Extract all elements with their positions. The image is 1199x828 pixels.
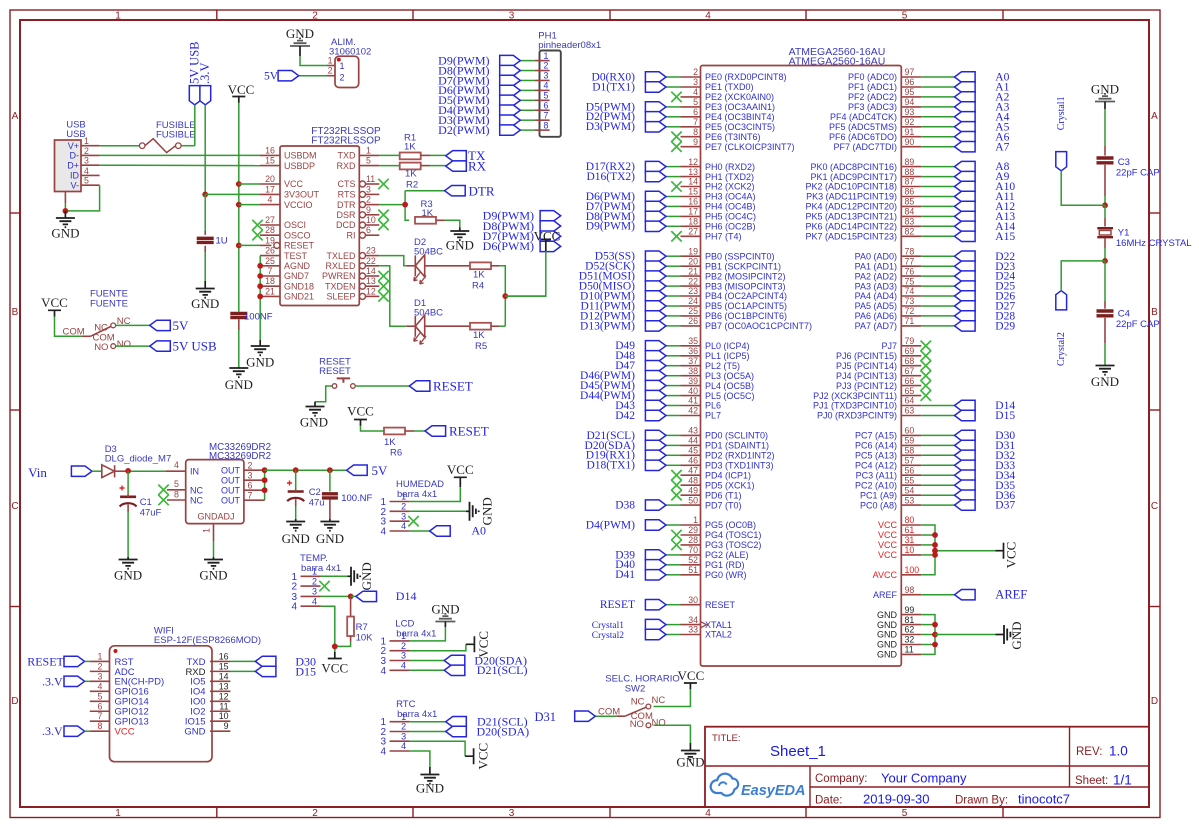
svg-text:2: 2 — [84, 146, 89, 156]
port D35 wire+flag — [921, 480, 1015, 492]
svg-text:31: 31 — [905, 535, 915, 545]
capacitor C3 22pF — [1097, 157, 1160, 179]
ground GND (RTC) — [416, 767, 444, 796]
port Vin flag — [28, 465, 92, 480]
svg-text:AREF: AREF — [873, 590, 898, 600]
port D21(SCL) flag (LCD) — [444, 663, 527, 677]
wire R2 to RX flag — [421, 165, 446, 167]
U1 pin 22 PB3 (MISOPCINT3) — [681, 276, 786, 291]
svg-text:49: 49 — [688, 485, 698, 495]
svg-text:7: 7 — [268, 266, 273, 276]
U1 pin 15 PH3 (OC4A) — [681, 187, 756, 202]
wire node to C4 — [1104, 261, 1106, 309]
svg-text:30: 30 — [688, 595, 698, 605]
resistor R3 — [415, 199, 436, 224]
svg-text:13: 13 — [366, 276, 376, 286]
resistor R7 10K — [347, 617, 373, 644]
svg-text:PD7 (T0): PD7 (T0) — [705, 500, 742, 510]
svg-text:DSR: DSR — [336, 210, 356, 220]
svg-text:23: 23 — [366, 246, 376, 256]
svg-text:GND: GND — [877, 610, 898, 620]
port 5V flag (FUENTE) — [150, 318, 189, 333]
wire LCD pin4 to D21 — [410, 669, 445, 671]
no-connect U2 CTS — [378, 179, 388, 189]
svg-text:V-: V- — [70, 180, 79, 190]
svg-text:4: 4 — [401, 521, 406, 531]
wire LCD pin2 to VCC — [410, 644, 466, 650]
svg-text:1: 1 — [544, 51, 549, 61]
ground GND (U3) — [199, 557, 227, 583]
svg-text:PD0 (SCLINT0): PD0 (SCLINT0) — [705, 431, 768, 441]
ground GND (FT232) — [246, 340, 274, 370]
svg-text:1: 1 — [693, 515, 698, 525]
svg-text:NO: NO — [630, 719, 644, 730]
svg-text:VCC: VCC — [678, 668, 705, 683]
wire RTC pin1 to D21 — [410, 721, 446, 723]
switch SW1 FUENTE — [63, 316, 132, 353]
svg-text:AVCC: AVCC — [873, 570, 898, 580]
PH1 pin 1 — [535, 51, 550, 61]
U1 pin 76 PA2 (AD2) — [855, 266, 922, 281]
port DTR flag — [445, 184, 495, 199]
U1 pin 46 PD3 (TXD1INT3) — [681, 456, 774, 471]
svg-text:1: 1 — [401, 712, 406, 722]
wire 5V USB flag drop — [194, 105, 196, 146]
wire RXLED to D1 — [379, 266, 415, 326]
VCC flag (LED pullup) — [534, 229, 561, 252]
port A10 wire+flag — [921, 181, 1015, 193]
ground GND (100.NF) — [316, 519, 344, 546]
USB pin 5 V- — [70, 176, 99, 191]
U1 pin 72 PA6 (AD6) — [855, 306, 922, 321]
svg-text:8: 8 — [174, 490, 179, 500]
svg-text:ID: ID — [70, 171, 80, 181]
svg-text:NO: NO — [117, 339, 131, 350]
svg-text:1: 1 — [328, 56, 333, 66]
svg-text:R7: R7 — [356, 622, 368, 633]
U2 pin 18 GND18 — [260, 276, 314, 291]
svg-text:NO: NO — [94, 342, 108, 353]
no-connect pin 66 — [921, 380, 931, 390]
svg-text:19: 19 — [265, 235, 275, 245]
wire VCC to COM — [55, 316, 82, 336]
svg-text:22pF CAP: 22pF CAP — [1116, 319, 1160, 330]
port D37 wire+flag — [921, 500, 1015, 512]
svg-text:VCC: VCC — [321, 661, 348, 676]
port D48 wire+flag — [615, 350, 680, 362]
IC U3 MC33269DR2 body — [186, 460, 244, 524]
svg-text:5: 5 — [366, 156, 371, 166]
svg-text:PH6 (OC2B): PH6 (OC2B) — [705, 222, 756, 232]
svg-text:PF3 (ADC3): PF3 (ADC3) — [848, 102, 897, 112]
U1 pin 62 GND — [877, 625, 921, 640]
wire RTC pin2 to D20 — [410, 731, 446, 733]
U1 pin 65 PJ2 (XCK3PCINT11) — [813, 386, 921, 401]
port D50(MISO) wire+flag — [579, 281, 681, 293]
wire 3V3OUT to .3V rail — [205, 193, 260, 195]
switch FUENTE labels — [90, 289, 128, 310]
svg-text:4: 4 — [268, 195, 273, 205]
no-connect U2 left — [252, 230, 262, 240]
svg-text:PH1 (TXD2): PH1 (TXD2) — [705, 172, 754, 182]
svg-text:PG0 (WR): PG0 (WR) — [705, 570, 747, 580]
port D42 wire+flag — [615, 410, 680, 422]
connector ALIM 31060102 body — [335, 56, 359, 87]
svg-text:47: 47 — [688, 465, 698, 475]
svg-text:R4: R4 — [472, 281, 484, 292]
U1 pin 24 PB5 (OC1APCINT5) — [681, 296, 788, 311]
svg-text:4: 4 — [312, 596, 317, 606]
wire LCD pin3 to D20 — [410, 660, 445, 662]
ground GND (LCD mound) — [431, 602, 459, 628]
svg-text:USBDP: USBDP — [284, 161, 315, 171]
svg-text:D6(PWM): D6(PWM) — [483, 239, 534, 253]
U3 pin 1 GNDADJ — [197, 512, 234, 542]
svg-text:PG2 (ALE): PG2 (ALE) — [705, 550, 749, 560]
svg-text:6: 6 — [248, 480, 253, 490]
U1 pin 26 PB7 (OC0AOC1CPCINT7) — [681, 316, 813, 331]
svg-text:PL0 (ICP4): PL0 (ICP4) — [705, 341, 750, 351]
capacitor C4 22pF — [1097, 309, 1160, 331]
U2 pin 10 DCD — [336, 215, 379, 230]
svg-text:51: 51 — [688, 565, 698, 575]
port A14 wire+flag — [921, 221, 1015, 233]
U4 pin 4 GPIO16 — [90, 681, 149, 697]
svg-text:D1(TX1): D1(TX1) — [592, 81, 635, 93]
svg-text:PL5 (OC5C): PL5 (OC5C) — [705, 391, 755, 401]
svg-text:1/1: 1/1 — [1113, 773, 1132, 788]
port D31 wire+flag — [921, 440, 1015, 452]
port D11(PWM) wire+flag — [580, 300, 680, 312]
U1 pin 94 PF3 (ADC3) — [848, 97, 921, 112]
svg-text:D-: D- — [70, 151, 80, 161]
svg-text:PC5 (A13): PC5 (A13) — [855, 451, 897, 461]
PH1 pin 4 — [535, 81, 550, 91]
svg-text:PL4 (OC5B): PL4 (OC5B) — [705, 381, 754, 391]
U2 pin 1 TXD — [338, 145, 380, 160]
wire GND rail (pins 99/81/62/32/11) — [921, 615, 995, 655]
LED D2 — [414, 237, 443, 284]
svg-text:35: 35 — [688, 336, 698, 346]
svg-text:15: 15 — [265, 156, 275, 166]
svg-text:75: 75 — [905, 276, 915, 286]
wire TEMP pin1 to GND — [321, 575, 348, 577]
svg-text:D14: D14 — [396, 589, 417, 603]
port D10(PWM) wire+flag — [580, 290, 680, 302]
svg-text:PC1 (A9): PC1 (A9) — [860, 490, 897, 500]
U1 pin 51 PG0 (WR) — [681, 565, 747, 580]
svg-text:99: 99 — [905, 605, 915, 615]
svg-text:PF2 (ADC2): PF2 (ADC2) — [848, 92, 897, 102]
U4 pin 9 GND — [184, 721, 230, 737]
svg-text:PB1 (SCKPCINT1): PB1 (SCKPCINT1) — [705, 261, 781, 271]
wire HUMEDAD pin1 to VCC — [410, 487, 461, 502]
wire USBDP (USB D+) — [100, 164, 260, 166]
U1 pin 7 PE5 (OC3CINT5) — [681, 117, 776, 132]
svg-text:FUENTE: FUENTE — [90, 299, 128, 310]
svg-text:4: 4 — [693, 87, 698, 97]
no-connect pin 27 — [671, 231, 681, 241]
svg-text:27: 27 — [265, 215, 275, 225]
U1 pin 71 PA7 (AD7) — [855, 316, 922, 331]
port D7(PWM) wire+flag — [586, 201, 681, 213]
wire RXD to D15 flag — [230, 670, 255, 672]
port A4 wire+flag — [921, 111, 1009, 123]
svg-text:98: 98 — [905, 585, 915, 595]
svg-text:87: 87 — [905, 177, 915, 187]
svg-text:PH2 (XCK2): PH2 (XCK2) — [705, 182, 755, 192]
wire TEMP pin4 to VCC — [321, 606, 338, 652]
svg-text:62: 62 — [905, 625, 915, 635]
port RESET flag (ESP) — [27, 654, 90, 668]
title block grid — [705, 727, 1149, 807]
U2 pin 20 VCC — [260, 174, 304, 189]
svg-text:92: 92 — [905, 117, 915, 127]
U3 pin 4 IN — [165, 460, 199, 477]
svg-text:SW2: SW2 — [625, 684, 646, 695]
svg-text:RI: RI — [347, 230, 356, 240]
svg-text:4: 4 — [380, 666, 386, 677]
U1 pin 18 PH6 (OC2B) — [681, 217, 756, 232]
U1 pin 80 VCC — [878, 515, 921, 530]
U2 pin 23 TXLED — [326, 246, 379, 261]
svg-text:PF5 (ADC5TMS): PF5 (ADC5TMS) — [829, 122, 897, 132]
svg-text:SLEEP: SLEEP — [326, 292, 355, 302]
svg-text:1: 1 — [98, 651, 103, 661]
svg-text:26: 26 — [265, 246, 275, 256]
svg-text:14: 14 — [219, 671, 229, 681]
port Crystal2 flag — [1056, 291, 1067, 366]
port D12(PWM) wire+flag — [580, 310, 680, 322]
port A6 wire+flag — [921, 131, 1009, 143]
svg-text:VCC: VCC — [534, 229, 561, 244]
svg-text:PD5 (XCK1): PD5 (XCK1) — [705, 480, 755, 490]
svg-text:3: 3 — [401, 651, 406, 661]
svg-text:43: 43 — [688, 426, 698, 436]
port A9 wire+flag — [921, 171, 1009, 183]
wire USBDM (USB D-) — [100, 154, 260, 156]
port 5V USB flag (FUENTE) — [150, 339, 217, 354]
svg-text:GND: GND — [1009, 621, 1024, 649]
svg-text:12: 12 — [366, 286, 376, 296]
svg-text:5V USB: 5V USB — [173, 339, 218, 354]
svg-text:74: 74 — [905, 286, 915, 296]
svg-text:GND: GND — [416, 781, 444, 796]
svg-text:3: 3 — [248, 470, 253, 480]
svg-text:D20(SDA): D20(SDA) — [477, 724, 530, 738]
no-connect pin 9 — [671, 142, 681, 152]
svg-text:GND: GND — [246, 355, 274, 370]
U1 pin 82 PK7 (ADC15PCINT23) — [805, 227, 921, 242]
svg-text:25: 25 — [265, 256, 275, 266]
svg-text:17: 17 — [688, 207, 698, 217]
port A2 wire+flag — [921, 92, 1009, 104]
PH1 pin 8 — [535, 120, 550, 130]
svg-text:GND: GND — [877, 640, 898, 650]
svg-text:Your Company: Your Company — [881, 771, 967, 786]
U1 pin 21 PB2 (MOSIPCINT2) — [681, 266, 786, 281]
wire R7 to VCC node — [335, 636, 351, 646]
svg-text:OUT: OUT — [221, 486, 241, 496]
port D24 wire+flag — [921, 271, 1015, 283]
svg-text:PE0 (RXD0PCINT8): PE0 (RXD0PCINT8) — [705, 72, 787, 82]
svg-text:4: 4 — [705, 808, 711, 819]
wire VCC rail (pins 80/61/31/10/AVCC) — [921, 525, 995, 575]
svg-text:1K: 1K — [422, 208, 434, 219]
wire VCC rail down — [236, 103, 260, 312]
USB pin 1 V+ — [68, 136, 100, 151]
svg-text:100NF: 100NF — [244, 312, 273, 323]
svg-text:7: 7 — [248, 490, 253, 500]
svg-text:60: 60 — [905, 426, 915, 436]
svg-text:66: 66 — [905, 376, 915, 386]
svg-text:5: 5 — [84, 176, 89, 186]
svg-text:D: D — [11, 696, 18, 707]
wire HUMEDAD pin2 to GND — [410, 510, 466, 512]
svg-text:D4(PWM): D4(PWM) — [586, 519, 635, 531]
USB pin 4 ID — [70, 166, 100, 181]
svg-text:GND: GND — [114, 568, 142, 583]
svg-text:TXLED: TXLED — [326, 251, 356, 261]
wire D3 to IN — [115, 468, 166, 474]
svg-text:OSCO: OSCO — [284, 230, 311, 240]
svg-text:12: 12 — [688, 157, 698, 167]
port D21(SCL) flag (RTC) — [446, 715, 528, 729]
svg-text:PJ2 (XCK3PCINT11): PJ2 (XCK3PCINT11) — [813, 391, 897, 401]
svg-text:42: 42 — [688, 406, 698, 416]
svg-text:PC4 (A12): PC4 (A12) — [855, 461, 897, 471]
svg-text:PJ4 (PCINT13): PJ4 (PCINT13) — [836, 371, 897, 381]
svg-text:AREF: AREF — [995, 588, 1027, 602]
svg-text:GND: GND — [1091, 374, 1119, 389]
U2 pin 19 RESET — [260, 235, 315, 250]
wire D1 to R5 — [425, 325, 470, 327]
svg-text:D+: D+ — [67, 160, 79, 170]
svg-text:RESET: RESET — [600, 599, 635, 611]
svg-text:1K: 1K — [404, 142, 416, 153]
svg-text:4: 4 — [291, 602, 297, 613]
svg-text:A: A — [12, 111, 19, 122]
U4 pin 1 RST — [90, 651, 134, 667]
svg-text:GND: GND — [446, 238, 474, 253]
svg-text:56: 56 — [905, 465, 915, 475]
svg-text:TXDEN: TXDEN — [325, 281, 356, 291]
U1 pin 70 PG2 (ALE) — [681, 545, 749, 560]
svg-text:10: 10 — [366, 215, 376, 225]
svg-text:4: 4 — [381, 747, 387, 758]
resistor R2 — [400, 163, 421, 191]
svg-text:PE1 (TXD0): PE1 (TXD0) — [705, 82, 754, 92]
svg-text:10K: 10K — [356, 633, 374, 644]
ground GND (ALIM) — [286, 26, 314, 56]
ground GND (USB) — [51, 211, 79, 241]
svg-text:13: 13 — [688, 167, 698, 177]
svg-text:5V: 5V — [264, 71, 279, 83]
svg-text:C1: C1 — [140, 497, 152, 508]
svg-text:GND: GND — [199, 568, 227, 583]
wire COM flag — [595, 715, 616, 717]
U1 pin 85 PK4 (ADC12PCINT20) — [805, 197, 921, 212]
port D2(PWM) wire+flag — [586, 111, 681, 123]
ground GND (1U) — [191, 281, 219, 311]
svg-text:A7: A7 — [995, 141, 1009, 153]
port A11 wire+flag — [921, 191, 1015, 203]
wire RTC pin3 to VCC — [410, 741, 466, 756]
wire V+ to fuse — [100, 145, 140, 147]
svg-text:28: 28 — [688, 535, 698, 545]
port TX flag — [446, 148, 486, 163]
svg-text:58: 58 — [905, 446, 915, 456]
ports D9-D6(PWM) column — [483, 209, 561, 254]
svg-text:22: 22 — [688, 276, 698, 286]
svg-text:1: 1 — [340, 61, 345, 71]
svg-text:PA2 (AD2): PA2 (AD2) — [855, 271, 897, 281]
svg-text:VCC: VCC — [41, 295, 68, 310]
svg-text:PL3 (OC5A): PL3 (OC5A) — [705, 371, 754, 381]
svg-text:26: 26 — [688, 316, 698, 326]
VCC flag (RTC, rotated) — [465, 743, 490, 770]
port D23 wire+flag — [921, 261, 1015, 273]
svg-text:PD6 (T1): PD6 (T1) — [705, 490, 742, 500]
wire node to C1 — [127, 471, 129, 494]
svg-text:3: 3 — [366, 184, 371, 194]
svg-text:GND7: GND7 — [284, 271, 309, 281]
IC U2 FT232RLSSOP body — [280, 146, 359, 306]
port D30 flag (ESP) — [255, 654, 316, 668]
U2 pin 25 AGND — [260, 256, 311, 271]
svg-text:TXD: TXD — [338, 151, 357, 161]
svg-text:PL2 (T5): PL2 (T5) — [705, 361, 740, 371]
svg-text:37: 37 — [688, 356, 698, 366]
svg-text:71: 71 — [905, 316, 915, 326]
svg-text:RTS: RTS — [338, 190, 356, 200]
svg-text:GND: GND — [184, 727, 205, 738]
svg-text:PK0 (ADC8PCINT16): PK0 (ADC8PCINT16) — [810, 162, 897, 172]
svg-text:7: 7 — [693, 117, 698, 127]
svg-text:D42: D42 — [615, 410, 635, 422]
svg-text:D2(PWM): D2(PWM) — [438, 123, 489, 137]
svg-text:PD1 (SDAINT1): PD1 (SDAINT1) — [705, 441, 769, 451]
wire RTC pin4 to GND — [410, 751, 430, 767]
U1 pin 23 PB4 (OC2APCINT4) — [681, 286, 788, 301]
svg-text:5: 5 — [693, 97, 698, 107]
svg-text:PH4 (OC4B): PH4 (OC4B) — [705, 202, 756, 212]
svg-text:64: 64 — [905, 396, 915, 406]
port D8(PWM) (PH1) — [438, 63, 534, 77]
capacitor C1 47uF — [120, 486, 162, 519]
port D30 wire+flag — [921, 430, 1015, 442]
U4 pin 15 RXD — [185, 661, 230, 677]
svg-text:PA6 (AD6): PA6 (AD6) — [855, 311, 897, 321]
U1 pin 73 PA5 (AD5) — [855, 296, 922, 311]
U2 pin 21 GND21 — [260, 286, 314, 301]
svg-text:RXD: RXD — [336, 161, 356, 171]
svg-text:D31: D31 — [534, 710, 556, 724]
connector LCD barra4x1 — [380, 619, 436, 677]
no-connect pin 68 — [921, 361, 931, 371]
no-connect pin 79 — [921, 341, 931, 351]
PH1 pin 2 — [535, 61, 550, 71]
svg-text:83: 83 — [905, 217, 915, 227]
U1 pin 97 PF0 (ADC0) — [848, 67, 921, 82]
svg-text:PK3 (ADC11PCINT19): PK3 (ADC11PCINT19) — [806, 192, 897, 202]
svg-text:95: 95 — [905, 87, 915, 97]
svg-text:VCC: VCC — [878, 520, 898, 530]
svg-text:A: A — [1151, 111, 1158, 122]
connector PH1 body — [540, 51, 561, 137]
svg-text:Crystal1: Crystal1 — [1056, 96, 1067, 130]
no-connect pin 48 — [671, 480, 681, 490]
